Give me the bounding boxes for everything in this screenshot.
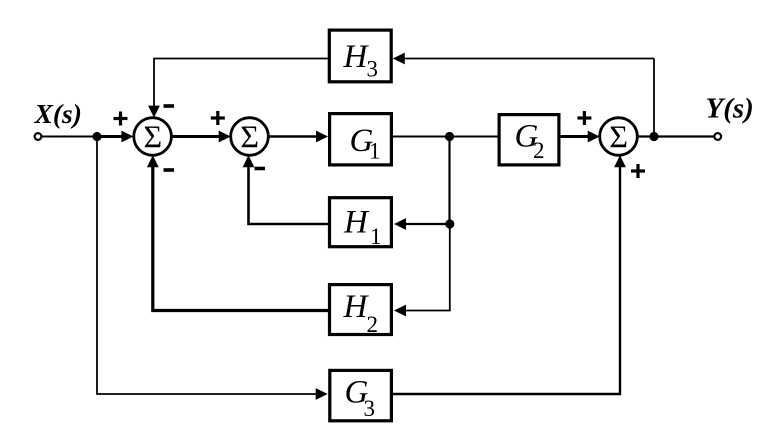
wire G2 to S3 bbox=[561, 135, 592, 138]
wire H3 to S1 top bbox=[154, 59, 328, 111]
plus sign below-right of S3 bbox=[631, 164, 645, 178]
plus sign at summer S3 input bbox=[577, 111, 591, 125]
block H1 bbox=[330, 198, 392, 247]
wire S2 to G1 bbox=[268, 135, 319, 137]
output terminal Y(s) bbox=[714, 133, 721, 140]
wire S1 to S2 bbox=[171, 135, 222, 138]
svg-text:H: H bbox=[343, 289, 370, 325]
svg-text:2: 2 bbox=[533, 138, 545, 163]
svg-text:H: H bbox=[343, 205, 370, 241]
summer S1 bbox=[134, 118, 172, 156]
svg-text:X(s): X(s) bbox=[34, 98, 82, 129]
svg-text:H: H bbox=[343, 39, 370, 75]
svg-text:Σ: Σ bbox=[143, 119, 162, 155]
wire input to node bbox=[42, 136, 97, 138]
wire node C to output terminal bbox=[654, 135, 714, 137]
minus bottom-right of S1 bbox=[164, 168, 175, 172]
svg-text:1: 1 bbox=[370, 224, 382, 249]
block H3 bbox=[329, 30, 391, 82]
node A (input branch) bbox=[92, 132, 101, 141]
svg-text:Σ: Σ bbox=[609, 119, 628, 155]
node D (H1 branch) bbox=[445, 219, 454, 228]
wire S3 to output node bbox=[637, 135, 654, 137]
svg-text:Σ: Σ bbox=[240, 119, 259, 155]
wire node C up to H3 feedback bbox=[653, 59, 655, 138]
plus sign at summer S2 input bbox=[211, 111, 225, 125]
minus bottom-right of S2 bbox=[255, 167, 266, 171]
wire node D down to H2 bbox=[403, 224, 450, 311]
wire H3 feedback horizontal bbox=[402, 58, 654, 60]
minus top-right of S1 bbox=[164, 104, 175, 108]
block G2 bbox=[499, 115, 559, 165]
wire H2 to S1 bottom bbox=[153, 164, 328, 311]
block G3 bbox=[330, 370, 392, 420]
wire G1 to G2 bbox=[393, 136, 498, 138]
summer S3 bbox=[600, 118, 638, 156]
block G1 bbox=[330, 114, 392, 165]
svg-text:3: 3 bbox=[364, 396, 376, 421]
block H2 bbox=[330, 285, 392, 335]
svg-text:Y(s): Y(s) bbox=[706, 93, 754, 125]
svg-text:2: 2 bbox=[367, 312, 379, 337]
wire node D into H1 bbox=[403, 223, 450, 225]
wire node A to S1 bbox=[97, 135, 124, 138]
wire G3 to S3 bottom bbox=[393, 164, 620, 394]
wire node B down to H1 bbox=[448, 137, 450, 225]
summer S2 bbox=[231, 118, 269, 156]
wire H1 to S2 bottom bbox=[249, 164, 329, 224]
node C (output branch) bbox=[649, 132, 658, 141]
plus sign at summer S1 input bbox=[114, 112, 128, 126]
input terminal X(s) bbox=[35, 133, 42, 140]
node B (after G1) bbox=[445, 132, 454, 141]
svg-text:1: 1 bbox=[369, 139, 381, 164]
wire node A down to G3 bbox=[97, 137, 319, 395]
svg-text:3: 3 bbox=[367, 57, 379, 82]
